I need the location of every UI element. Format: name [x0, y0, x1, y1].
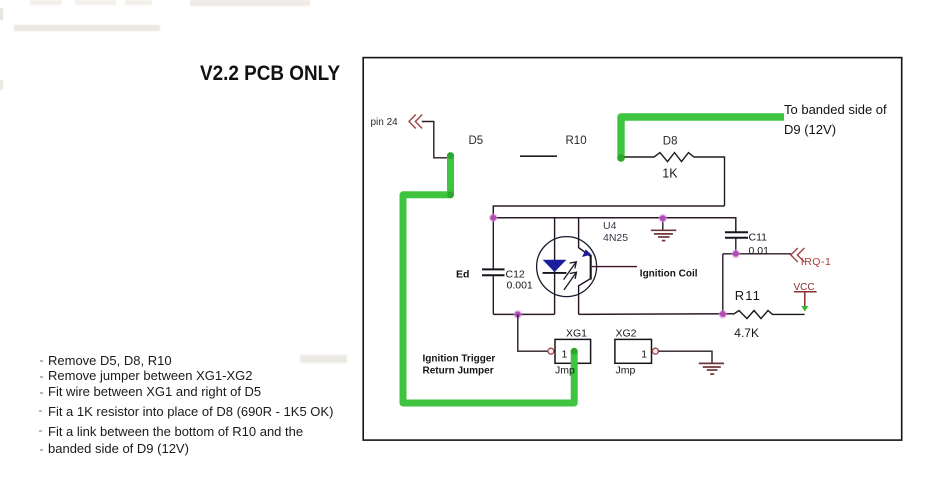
opto U4 circle: [537, 237, 597, 297]
jumper XG1 box: [555, 339, 591, 363]
green jumper B end caps: [447, 152, 578, 355]
light arrow 2: [564, 272, 577, 290]
light arrow 1: [564, 262, 577, 280]
svg-text:1: 1: [641, 349, 647, 361]
svg-text:4N25: 4N25: [603, 232, 628, 244]
svg-text:IRQ-1: IRQ-1: [801, 256, 832, 268]
svg-text:Ed: Ed: [456, 269, 469, 281]
green jumper A end cap: [617, 154, 625, 162]
wire left branch to C12: [492, 218, 494, 269]
wire XG2 to ground: [658, 351, 712, 363]
instruction line 2: [48, 368, 252, 383]
svg-text:0.01: 0.01: [749, 245, 770, 257]
resistor R11: [733, 311, 805, 319]
LED of U4: [543, 260, 567, 272]
svg-text:D5: D5: [469, 135, 484, 147]
svg-text:R11: R11: [735, 288, 761, 303]
svg-text:Ignition Coil: Ignition Coil: [640, 269, 698, 280]
wire bottom rail right: [579, 313, 733, 316]
input chevrons pin 24: [409, 115, 422, 129]
junction dot XG1 branch: [515, 311, 521, 317]
note: To banded side of D9 (12V): [784, 100, 887, 140]
faint left edge tick: [0, 8, 3, 20]
instruction line 6: [48, 441, 189, 456]
wire IRQ down to bottom rail: [722, 254, 724, 315]
faint screenshot smudge top-left 3: [125, 0, 152, 5]
svg-text:0.001: 0.001: [507, 280, 533, 292]
junction dot bottom rail right: [720, 311, 726, 317]
wire remnant of R10: [520, 155, 557, 157]
svg-text:U4: U4: [603, 220, 617, 232]
svg-text:1: 1: [562, 349, 568, 361]
capacitor C11: [725, 232, 748, 237]
svg-text:D8: D8: [663, 136, 678, 148]
wire C11 to IRQ node: [735, 238, 737, 254]
faint screenshot smudge top-left 2: [75, 0, 116, 5]
instruction bullet 2: [40, 376, 43, 378]
ground near U4 bars: [651, 230, 676, 240]
base lead: [592, 266, 637, 268]
faint left edge tick 2: [0, 80, 3, 90]
title V2.2 PCB ONLY: [200, 62, 340, 86]
jumper XG2 box: [615, 339, 652, 363]
svg-text:XG2: XG2: [616, 328, 637, 340]
instruction bullet 5: [39, 430, 42, 432]
LED cathode bar: [543, 272, 567, 274]
junction dot ground branch: [660, 215, 666, 221]
instruction line 3: [48, 384, 261, 399]
XG1 pin circle: [548, 348, 554, 354]
svg-text:C11: C11: [749, 231, 768, 243]
green jumper wire B (pin24 to XG1): [403, 156, 574, 403]
svg-text:R10: R10: [566, 135, 587, 147]
wire pin24 to green jumper: [422, 122, 451, 158]
instruction bullet 6: [40, 449, 43, 451]
green jumper wire A (D8 to banded side of D9): [621, 117, 784, 158]
svg-text:Jmp: Jmp: [555, 365, 575, 377]
wire top rail upper: [493, 206, 724, 218]
wire C12 to bottom rail: [492, 276, 494, 315]
capacitor C12: [482, 269, 505, 275]
wire IRQ horizontal: [723, 253, 791, 255]
svg-text:4.7K: 4.7K: [734, 326, 759, 340]
opto U4 LED side vertical wire: [554, 218, 556, 315]
junction dot halos: [489, 213, 740, 318]
resistor D8 (1K fitted): [625, 153, 725, 206]
junction dot IRQ node: [733, 251, 739, 257]
XG2 pin circle: [652, 348, 658, 354]
ground near XG2 bars: [699, 363, 724, 374]
junction dot top rail left: [490, 215, 496, 221]
svg-text:Jmp: Jmp: [616, 365, 636, 377]
opto U4 transistor side wires: [579, 218, 591, 257]
instruction bullet 3: [40, 392, 43, 394]
instruction line 1: [48, 353, 172, 368]
faint ghost text line: [14, 25, 160, 31]
faint screenshot smudge top-left 1: [30, 0, 62, 5]
instruction line 5: [48, 424, 303, 439]
faint screenshot smudge top-left 4: [190, 0, 310, 6]
schematic frame: [363, 58, 902, 441]
phototransistor arrow (blue): [582, 249, 591, 257]
wire bottom rail left: [493, 313, 554, 315]
svg-text:Return Jumper: Return Jumper: [423, 365, 494, 376]
instruction line 4: [48, 404, 333, 419]
wire top rail lower: [493, 218, 736, 232]
faint ghost streak near line 1: [300, 355, 347, 363]
output chevrons IRQ-1: [791, 248, 805, 262]
VCC symbol: [794, 292, 817, 308]
ground near U4 stem: [662, 218, 664, 230]
svg-text:VCC: VCC: [794, 282, 815, 293]
wire XG1 branch: [518, 314, 548, 351]
instruction bullet 1: [40, 360, 43, 362]
svg-text:XG1: XG1: [566, 328, 587, 340]
VCC arrow: [801, 306, 808, 312]
svg-text:Ignition Trigger: Ignition Trigger: [423, 353, 496, 364]
phototransistor base bar: [590, 255, 592, 280]
instruction bullet 4: [39, 410, 42, 412]
svg-text:1K: 1K: [662, 167, 678, 181]
svg-text:pin 24: pin 24: [371, 117, 399, 128]
